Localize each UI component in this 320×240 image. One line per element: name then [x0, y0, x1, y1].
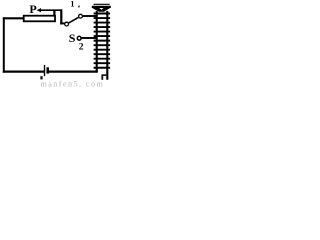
svg-text:S: S: [69, 31, 76, 45]
screw head top (slot line): [94, 3, 110, 5]
wire bottom horizontal (battery right side to electromagnet): [48, 70, 98, 72]
svg-text:manfen5. com: manfen5. com: [41, 80, 105, 89]
screw tip hook left leg: [101, 75, 103, 80]
coil turn 12: [94, 62, 111, 64]
wire to switch pivot: [60, 22, 64, 24]
coil left rail: [96, 11, 98, 73]
scan speckle near contact 1: [78, 6, 80, 8]
coil turn 5: [94, 31, 111, 33]
coil turn 3: [94, 22, 111, 24]
battery positive plate (long): [44, 65, 46, 76]
screw tip hook bridge: [102, 74, 108, 76]
wire contact 1 to coil top: [83, 15, 96, 17]
coil right rail / screw shaft: [106, 11, 108, 80]
wire contact 2 to coil middle tap: [82, 37, 96, 39]
coil turn 6: [94, 35, 111, 37]
scan speckle: [40, 76, 42, 79]
switch S pivot contact: [65, 22, 69, 26]
wire top-left horizontal: [3, 17, 25, 19]
wire from slider down to switch: [60, 9, 62, 24]
contact 1 terminal: [79, 14, 83, 18]
switch lever: [69, 17, 79, 23]
screw head underside: [92, 8, 110, 12]
coil turn 8: [94, 44, 111, 46]
wire bottom horizontal (battery left side): [3, 70, 44, 72]
wire left vertical: [3, 17, 5, 72]
coil turn 9: [94, 49, 111, 51]
coil turn 7: [94, 40, 111, 42]
coil turn 2: [94, 17, 111, 19]
svg-text:2: 2: [79, 42, 84, 53]
coil turn 11: [94, 58, 111, 60]
rheostat slider arrowhead: [37, 8, 41, 12]
resistor P (rheostat body): [24, 16, 55, 22]
svg-text:P: P: [29, 2, 36, 16]
svg-text:1: 1: [70, 0, 74, 9]
contact 2 terminal: [77, 36, 81, 40]
coil turn 1: [94, 13, 111, 15]
coil turn 4: [94, 26, 111, 28]
coil turn 10: [94, 53, 111, 55]
rheostat slider tap: [53, 10, 55, 16]
rheostat slider arm: [39, 9, 62, 11]
screw head bar: [92, 6, 111, 8]
battery negative plate (short thick): [46, 67, 49, 73]
coil turn 13: [94, 67, 111, 69]
